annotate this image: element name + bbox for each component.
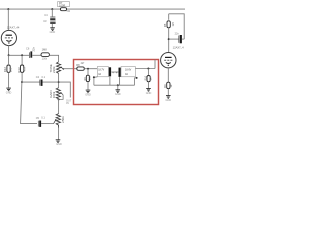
label: polarity marks between C7 and C8 [111, 71, 118, 75]
wire: R2 down to tap row [21, 72, 23, 82]
wire: bottom bus of filter [94, 84, 135, 86]
wire: cap column to ground [51, 24, 53, 28]
capacitor C5 [36, 116, 46, 127]
svg-text:100R: 100R [59, 4, 65, 8]
wire: V2 cathode pin [167, 68, 169, 82]
svg-text:GND: GND [56, 143, 62, 146]
node: feedback tap junction [58, 81, 60, 83]
node: tap row junction [21, 81, 23, 83]
svg-text:GND: GND [115, 93, 121, 96]
svg-text:R12: R12 [3, 67, 7, 73]
wire: bus riser to box top [154, 60, 156, 69]
svg-text:18.7V: 18.7V [98, 70, 104, 72]
svg-text:250k: 250k [61, 116, 65, 123]
svg-text:R5: R5 [163, 23, 167, 27]
svg-text:GND: GND [85, 93, 91, 96]
svg-text:12AX7_44: 12AX7_44 [7, 25, 20, 29]
svg-text:GND: GND [50, 31, 56, 34]
ground (below R9) [85, 90, 91, 96]
capacitor C7 (electrolytic, thick bar) [109, 67, 111, 85]
svg-text:1M8: 1M8 [42, 48, 48, 52]
node: P2 bottom junction [58, 98, 60, 100]
svg-text:47k: 47k [23, 66, 27, 71]
wire: tap row [22, 81, 40, 83]
potentiometer P2 (vertical zigzag with wiper loop) [49, 88, 63, 100]
wire: R3 to tone chain corner [50, 55, 59, 62]
node: V1 plate junction on bus [7, 8, 9, 10]
capacitor C4 [44, 13, 55, 20]
resistor R8 (series, inside box left) [76, 63, 85, 70]
wire: R6 to ground [167, 89, 169, 96]
tube V2 (12AX7_45 triode) [161, 46, 185, 68]
svg-text:22n: 22n [175, 32, 180, 35]
svg-text:1k5: 1k5 [171, 22, 175, 27]
svg-text:0A: 0A [125, 73, 128, 76]
svg-text:C5: C5 [36, 116, 40, 120]
wire: decoupling cap branch [51, 9, 53, 16]
ground (below C3/C4) [50, 28, 56, 34]
potentiometer P3 (vertical zigzag) [56, 114, 65, 128]
resistor R7 (series in B+ bus) [58, 1, 71, 13]
wire: chain down to P3 [58, 99, 60, 114]
wire: P1 wiper into red block [63, 68, 76, 70]
wire: tap row extension to down stub [59, 82, 71, 97]
wire: P1 to P2 [58, 73, 60, 87]
ground (below R10) [146, 89, 152, 95]
svg-text:100k: 100k [42, 57, 48, 60]
wire: V1 plate pin [7, 9, 9, 31]
resistor R5 (V2 plate load) [163, 21, 175, 28]
svg-text:0.1: 0.1 [42, 76, 46, 79]
svg-text:18.6V: 18.6V [125, 69, 132, 72]
node: R2 top junction [21, 54, 23, 56]
svg-text:GND: GND [146, 92, 152, 95]
capacitor C8 (electrolytic, thick bar) [119, 68, 121, 86]
highlight: red supply-filter box [74, 60, 159, 105]
probe box: voltage readout 1 [97, 67, 108, 77]
wire: R5 to V2 plate [168, 28, 170, 53]
capacitor C6 [26, 46, 36, 58]
svg-text:C2: C2 [36, 75, 40, 79]
svg-text:R6: R6 [163, 84, 167, 88]
node: cathode junction [8, 54, 10, 56]
ground (below R1) [6, 88, 12, 94]
wire: cathode row [9, 54, 30, 56]
wire: C9 to right riser [182, 38, 184, 40]
svg-text:1k5: 1k5 [9, 67, 13, 72]
wire: bypass row [169, 38, 179, 40]
wire: bus ground drop [117, 85, 119, 89]
wire: R8 to C7 top bus [84, 68, 97, 70]
svg-text:0V: 0V [66, 102, 69, 105]
svg-text:12AX7_4: 12AX7_4 [173, 46, 185, 50]
node: R9 top junction [87, 68, 89, 70]
potentiometer P1 (vertical zigzag with wiper) [49, 62, 64, 74]
node: R10 top junction [147, 68, 149, 70]
svg-text:C4: C4 [44, 13, 48, 17]
svg-text:0A: 0A [98, 73, 101, 76]
svg-text:220k: 220k [52, 66, 56, 73]
node: decoupling branch junction on bus [51, 8, 53, 10]
resistor R10 (inside box right) [144, 69, 152, 89]
svg-text:GND: GND [166, 99, 172, 102]
capacitor C9 (plate bypass) [175, 32, 182, 43]
wire: coupling branch down-left column [21, 82, 37, 124]
resistor R3 (1M, horizontal) [41, 48, 49, 61]
wire: box2 to R10 junction [135, 68, 155, 70]
resistor R6 (V2 cathode) [163, 82, 173, 88]
ground (below P3) [56, 140, 62, 146]
tube V1 (12AX7_44 triode) [1, 25, 20, 45]
svg-text:0.1: 0.1 [41, 116, 45, 119]
wire: C5 to P3 wiper arrow [41, 123, 54, 125]
capacitor C2 [36, 75, 46, 86]
wire: R2 column down [21, 55, 23, 65]
wire: R1 to ground [8, 55, 10, 65]
wire: C6 to R3 [32, 54, 41, 56]
wire: top-right plate feed corner [169, 14, 185, 39]
svg-text:10k: 10k [88, 75, 92, 80]
resistor R1 (V1 cathode) [3, 65, 13, 72]
probe box: voltage readout 2 [121, 67, 135, 77]
ground (bottom bus) [115, 90, 121, 96]
resistor R9 (bleeder, inside box) [84, 69, 92, 90]
wire: V1 cathode pin [8, 46, 10, 56]
svg-text:GND: GND [6, 91, 12, 94]
node: ground tap on bottom bus [117, 84, 119, 86]
wire: probe box 1 anchor [94, 77, 97, 85]
wire: probe box 2 anchor [135, 78, 137, 85]
wire: C2 to chain junction [43, 81, 59, 83]
svg-text:C3: C3 [43, 19, 47, 23]
capacitor C3 [43, 19, 55, 24]
wire: P3 to ground [58, 128, 60, 140]
svg-text:C6: C6 [26, 47, 30, 51]
ground (below R6) [166, 96, 172, 102]
wire: B+ top bus [0, 8, 185, 10]
svg-text:22n: 22n [32, 46, 36, 51]
node: plate bypass junction [168, 38, 170, 40]
resistor R2 [17, 65, 26, 73]
